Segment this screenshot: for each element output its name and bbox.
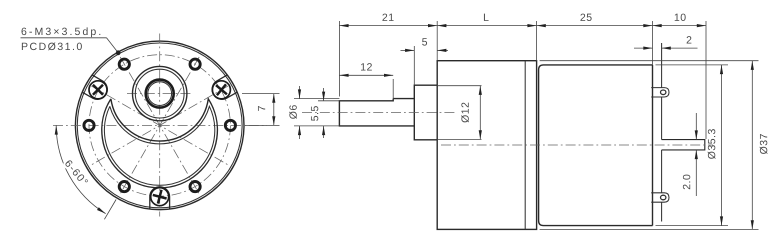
mounting hole M3 #1 at 0deg [225, 120, 235, 130]
chain extension lines [338, 21, 340, 97]
dimension 6-60deg: text [65, 160, 87, 182]
mounting hole M3 #5 at 240deg [119, 182, 129, 192]
screw Q2 head at 150deg [89, 81, 107, 99]
front view: radial centerline 150deg [91, 86, 228, 165]
dim text L [484, 14, 489, 21]
dimension d12: boss [479, 86, 481, 140]
dimension 6-60deg: arc [56, 125, 105, 213]
leader line to face edge [107, 38, 118, 53]
dimension 2.0: rear stub [695, 113, 697, 140]
side view: upper terminal tab [651, 88, 669, 97]
dim text 21 [382, 14, 393, 21]
dimension d37: dimension line [751, 61, 753, 230]
dimension 6-60deg: radial extension line [104, 200, 116, 220]
dimension 12: flat length [392, 79, 394, 100]
front view: radial centerline 60deg [120, 57, 199, 194]
front view: radial centerline 30deg [91, 86, 228, 165]
note text PCD d31.0 [22, 42, 82, 50]
side view: front boss d12 x 5 [414, 85, 437, 140]
side view: motor can right face [652, 65, 654, 226]
note text 6-M3x3.5dp [22, 27, 101, 37]
leader underline [21, 37, 107, 39]
front view: crescent pocket outer contour [102, 99, 218, 188]
top chain dimension line [339, 25, 706, 27]
front view: shaft hole inner circle [148, 82, 172, 106]
dimension d37: extension lines [540, 60, 759, 62]
mounting hole M3 #3 at 120deg [119, 59, 129, 69]
dimension d35.3: extension lines [656, 64, 729, 66]
side view: rear shaft stub [662, 140, 705, 150]
front view: inner chamfer circle [77, 43, 242, 208]
side view: end cap face line [661, 43, 663, 88]
mounting hole M3 #4 at 180deg [84, 120, 94, 130]
screw pocket at 150deg [83, 75, 108, 99]
side view: motor can outline [539, 65, 653, 226]
dimension 7: extension lines [242, 93, 280, 95]
mounting hole M3 #2 at 60deg [190, 59, 200, 69]
front view: PCD 31.0 bolt circle [89, 55, 230, 196]
front view: crescent pocket inner contour [104, 106, 214, 185]
front view: shaft hole bold ring d6 [146, 80, 174, 108]
front view: shaft boss horizontal centerline [127, 93, 193, 95]
mounting hole M3 #6 at 300deg [190, 182, 200, 192]
dimension 7: dimension line [273, 94, 275, 126]
dimension 7: text [258, 106, 265, 111]
front view: horizontal centerline [53, 124, 267, 126]
side view: gearbox body rectangle [437, 61, 536, 230]
front view: radial centerline 120deg [120, 57, 199, 194]
side view: gearbox lip line [524, 61, 526, 230]
dim text 10 [675, 14, 686, 21]
dimension d6: shaft [294, 98, 339, 100]
dimension 5.5: across flat [318, 100, 339, 102]
screw pocket at 30deg [212, 75, 237, 99]
screw Q1 head at 30deg [212, 81, 230, 99]
side view: output shaft outline [339, 99, 414, 126]
dimension d35.3: dimension line [721, 65, 723, 226]
side view: boss edge projection lines [437, 85, 481, 87]
side view: lower terminal tab [651, 193, 669, 202]
front view: vertical centerline [159, 34, 161, 217]
screw pocket at 270deg [150, 187, 170, 209]
screw Q3 head at 270deg [151, 188, 169, 206]
dimension 5: boss length [413, 46, 415, 85]
dim text 25 [580, 14, 591, 21]
side view: shaft centerline [302, 111, 456, 113]
dimension 2: end cap [634, 47, 653, 49]
front view: boss chamfer circle [135, 69, 184, 118]
side view: main axis centerline [441, 144, 713, 146]
front view: output shaft boss circle d12 [133, 66, 187, 120]
leader dot [116, 50, 121, 55]
front view: gearbox face outer circle [75, 41, 244, 210]
